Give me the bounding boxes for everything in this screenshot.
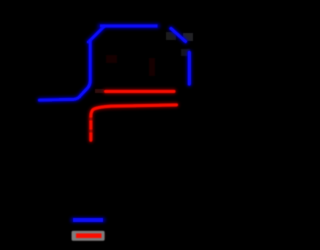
legend: blue sample line [73,218,103,222]
faint gray smudge right of top-right diagonal [183,33,193,41]
wire: ring top-right diagonal (blue) [171,29,186,42]
wire: ring top-left diagonal (blue) [89,27,105,42]
wire: upper red horizontal (red) [106,90,175,93]
glow layer for blue wires [40,26,190,220]
faint artifact smudge mid ring interior [149,58,155,76]
wire: ring left vertical with elbow to left lead (blue) [40,41,91,100]
wire: ring right vertical (blue) [188,53,192,85]
faint gray smudge left of top-right diagonal [166,32,176,40]
legend: red sample line (selected) [76,233,102,238]
faint artifact smudge upper ring interior [106,55,117,63]
glow layer for red wires [76,91,177,235]
wire: ring top horizontal (blue) [100,24,158,27]
dim patches on red drop wire [89,118,93,133]
wire: lower red horizontal with elbow down (red) [91,105,177,140]
selection box behind red legend line [72,231,105,241]
faint gray smudge above right vertical [181,49,190,56]
faint dark red stub left of inner double-bond line [95,89,104,93]
